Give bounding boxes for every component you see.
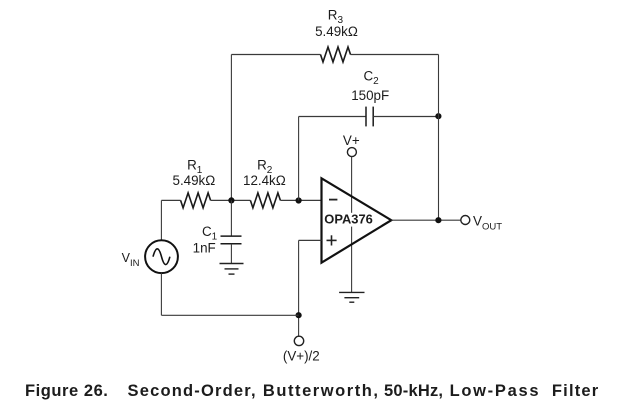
- wire: node B up to C2: [298, 117, 300, 201]
- caption Figure 26: [25, 382, 599, 400]
- node A junction dot: [228, 197, 234, 203]
- capacitor C1: [221, 236, 242, 244]
- svg-text:VOUT: VOUT: [473, 214, 502, 233]
- op-amp U1 triangle: [322, 178, 392, 262]
- node B junction dot: [296, 197, 302, 203]
- svg-text:50-kHz,: 50-kHz,: [384, 382, 443, 400]
- svg-text:Figure 26.: Figure 26.: [25, 382, 108, 400]
- resistor R1: [181, 193, 211, 208]
- wire: V+ supply line down through op-amp to ground: [351, 157, 353, 293]
- op-amp noninverting input plus sign: [327, 235, 337, 245]
- wire: VIN corner to R1: [161, 199, 180, 201]
- wire: R2 to inverting input: [280, 199, 321, 201]
- svg-text:5.49kΩ: 5.49kΩ: [315, 24, 358, 39]
- label OPA376: [324, 213, 377, 227]
- capacitor C2: [366, 107, 373, 127]
- wire: output column vertical: [438, 55, 440, 221]
- wire: noninverting input: [299, 239, 322, 241]
- wire: C1 top lead: [230, 200, 232, 236]
- svg-text:Butterworth,: Butterworth,: [263, 382, 380, 400]
- svg-text:V+: V+: [343, 133, 360, 148]
- svg-text:Filter: Filter: [552, 382, 600, 400]
- junction dot C2 / output column: [435, 113, 441, 119]
- op-amp inverting input minus sign: [329, 199, 337, 201]
- bottom rail junction dot: [296, 312, 302, 318]
- wire: C1 bottom lead: [230, 244, 232, 264]
- svg-text:Low-Pass: Low-Pass: [450, 382, 541, 400]
- (V+)/2 terminal circle: [294, 336, 303, 345]
- wire: VIN top lead: [160, 200, 162, 240]
- resistor R3: [321, 47, 351, 62]
- wire: op-amp output: [391, 219, 461, 221]
- wire: node A up to top rail: [230, 55, 232, 201]
- ground below op-amp: [339, 292, 364, 302]
- wire: C2 right lead: [373, 116, 438, 118]
- svg-text:VIN: VIN: [122, 251, 140, 269]
- svg-text:5.49kΩ: 5.49kΩ: [173, 173, 216, 188]
- wire: VIN bottom lead: [160, 273, 162, 315]
- ground below C1: [220, 264, 244, 275]
- source VIN sine wave: [153, 249, 170, 265]
- wire: feedback top rail left segment: [231, 54, 320, 56]
- svg-text:OPA376: OPA376: [324, 212, 372, 227]
- svg-text:Second-Order,: Second-Order,: [128, 382, 257, 400]
- svg-text:12.4kΩ: 12.4kΩ: [243, 173, 286, 188]
- wire: C2 left lead: [299, 116, 366, 118]
- wire: R1 to node A to R2: [211, 199, 251, 201]
- svg-text:150pF: 150pF: [351, 88, 389, 103]
- wire: bottom rail: [161, 314, 298, 316]
- svg-text:C2: C2: [364, 68, 380, 87]
- resistor R2: [250, 193, 280, 208]
- svg-text:(V+)/2: (V+)/2: [283, 348, 320, 363]
- V+ terminal circle: [347, 148, 356, 157]
- source VIN circle: [145, 240, 178, 273]
- svg-text:1nF: 1nF: [193, 240, 216, 255]
- output junction dot: [435, 217, 441, 223]
- wire: feedback top rail right segment: [351, 54, 439, 56]
- VOUT terminal circle: [461, 216, 470, 225]
- wire: bias vertical to (V+)/2 terminal: [298, 240, 300, 336]
